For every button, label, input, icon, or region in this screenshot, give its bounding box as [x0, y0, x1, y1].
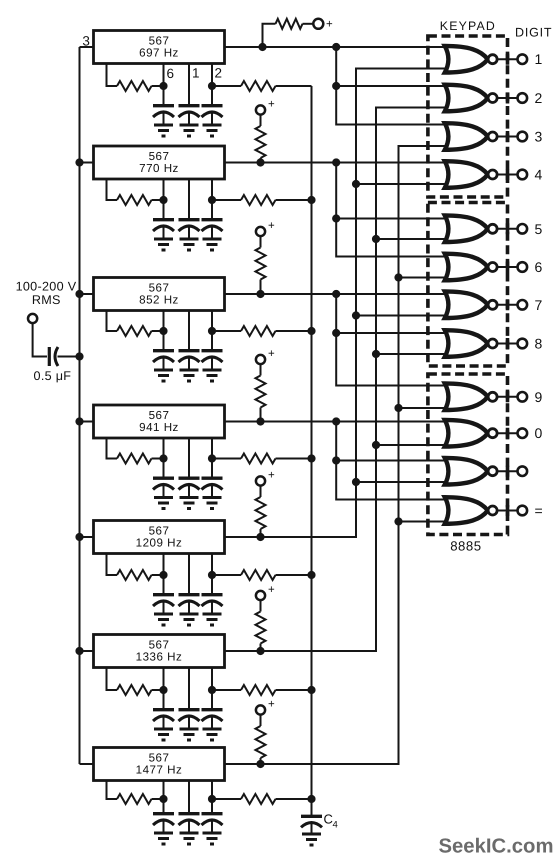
ground	[203, 614, 222, 625]
svg-text:KEYPAD: KEYPAD	[440, 19, 496, 33]
ground	[154, 498, 173, 509]
wire 1336 Hz column	[225, 108, 451, 652]
output bubble G5	[488, 224, 497, 233]
junction	[256, 417, 264, 425]
svg-text:9: 9	[535, 389, 543, 405]
wire border tick	[506, 338, 510, 349]
wire	[152, 458, 164, 460]
wire	[260, 158, 262, 163]
svg-text:1477 Hz: 1477 Hz	[136, 764, 183, 777]
wire	[80, 536, 94, 538]
capacitor C3	[163, 331, 165, 349]
svg-text:+: +	[268, 99, 275, 111]
wire	[80, 763, 94, 765]
junction	[256, 647, 264, 655]
wire	[212, 199, 241, 201]
wire pin 6	[163, 311, 165, 332]
wire	[260, 486, 262, 497]
wire border tick	[506, 466, 510, 477]
wire pin 2	[211, 311, 213, 332]
capacitor C6	[163, 690, 165, 708]
svg-text:2: 2	[215, 66, 223, 81]
wire	[260, 236, 262, 247]
wire	[212, 574, 241, 576]
wire pin 1	[188, 179, 190, 214]
resistor R3c	[256, 248, 266, 280]
junction filter bus tap	[307, 571, 315, 579]
svg-text:+: +	[268, 220, 275, 232]
wire	[263, 24, 276, 47]
capacitor C5	[211, 575, 213, 593]
wire	[80, 421, 94, 423]
NOR gate G9	[445, 383, 488, 410]
wire	[212, 798, 241, 800]
resistor R3b	[241, 326, 276, 336]
capacitor C7	[188, 799, 190, 812]
junction	[256, 290, 264, 298]
output bubble G4	[488, 170, 497, 179]
NOR gate G4	[445, 161, 488, 188]
wire	[399, 277, 451, 279]
wire gate output	[497, 228, 518, 230]
output terminal digit 2	[518, 93, 528, 103]
junction pin 2 node	[208, 82, 216, 90]
ground	[203, 125, 222, 136]
wire	[276, 199, 312, 201]
wire gate output	[497, 58, 518, 60]
svg-text:5: 5	[535, 221, 543, 237]
junction	[372, 441, 380, 449]
wire 941 Hz output row	[225, 421, 451, 423]
567 tone decoder U3 852 Hz	[94, 278, 225, 311]
wire gate output	[497, 343, 518, 345]
wire pin4 bracket U7	[107, 781, 118, 800]
wire	[376, 238, 450, 240]
capacitor C1	[211, 86, 213, 104]
capacitor C4	[188, 459, 190, 477]
wire row branch	[336, 294, 450, 386]
ground	[180, 370, 199, 381]
wire	[356, 315, 450, 317]
wire border tick	[506, 131, 510, 142]
wire	[33, 323, 47, 356]
wire pin 6	[163, 438, 165, 459]
capacitor C5	[163, 575, 165, 593]
svg-text:+: +	[268, 348, 275, 360]
junction pin 2 node	[208, 196, 216, 204]
wire pin4 bracket U3	[107, 311, 118, 332]
V+ terminal supply 7	[256, 705, 265, 714]
junction bus tap	[75, 533, 83, 541]
wire row branch	[336, 163, 450, 257]
svg-text:+: +	[268, 470, 275, 482]
V+ terminal supply 1	[313, 19, 323, 29]
capacitor 0.5uF	[48, 347, 51, 366]
resistor R5b	[241, 570, 276, 580]
svg-text:6: 6	[535, 259, 543, 275]
junction input node	[75, 352, 83, 360]
wire row branch	[336, 332, 450, 334]
input terminal	[28, 314, 37, 323]
junction	[372, 235, 380, 243]
wire	[260, 408, 262, 422]
wire	[303, 23, 314, 25]
resistor R2b	[241, 195, 276, 205]
wire	[152, 798, 164, 800]
ground	[180, 614, 199, 625]
resistor R7a	[117, 794, 152, 804]
wire pin4 bracket U5	[107, 554, 118, 576]
ground	[180, 833, 199, 844]
junction bus tap	[75, 290, 83, 298]
junction	[256, 533, 264, 541]
wire pin 6	[163, 64, 165, 87]
resistor R6b	[241, 685, 276, 695]
ground	[203, 729, 222, 740]
svg-text:+: +	[326, 19, 333, 31]
wire	[212, 85, 241, 87]
wire	[276, 85, 312, 87]
567 tone decoder U5 1209 Hz	[94, 521, 225, 554]
keypad gate group C dashed box	[428, 374, 508, 535]
ground	[154, 370, 173, 381]
svg-text:1336 Hz: 1336 Hz	[136, 651, 183, 664]
capacitor C3	[211, 331, 213, 349]
output bubble G10	[488, 429, 497, 438]
output bubble G6	[488, 263, 497, 272]
V+ terminal supply 3	[256, 227, 265, 236]
NOR gate G12	[445, 497, 488, 524]
svg-text:1: 1	[192, 66, 200, 81]
output terminal digit 8	[518, 339, 528, 349]
resistor R5a	[117, 570, 152, 580]
wire	[276, 574, 312, 576]
capacitor C2	[211, 200, 213, 218]
output terminal digit blank	[518, 466, 528, 476]
ground	[180, 239, 199, 250]
wire filter bus	[311, 86, 313, 816]
svg-text:697 Hz: 697 Hz	[139, 47, 179, 60]
wire	[260, 364, 262, 375]
junction	[256, 158, 264, 166]
wire pin 1	[188, 781, 190, 814]
wire	[260, 644, 262, 652]
wire pin 6	[163, 554, 165, 576]
svg-text:4: 4	[535, 167, 543, 183]
wire border tick	[506, 505, 510, 516]
ground	[180, 729, 199, 740]
svg-text:852 Hz: 852 Hz	[139, 294, 179, 307]
wire border tick	[506, 54, 510, 65]
svg-text:8885: 8885	[450, 539, 481, 554]
ground	[154, 614, 173, 625]
output terminal digit 3	[518, 132, 528, 142]
output bubble G1	[488, 55, 497, 64]
resistor R6c	[256, 612, 266, 644]
wire	[276, 458, 312, 460]
wire row branch	[336, 85, 450, 87]
wire	[152, 199, 164, 201]
resistor R1c	[276, 19, 303, 29]
wire	[376, 444, 450, 446]
junction filter bus tap	[307, 795, 315, 803]
wire pin 2	[211, 668, 213, 691]
wire gate output	[497, 304, 518, 306]
capacitor C6	[188, 690, 190, 708]
svg-text:SeekIC.com: SeekIC.com	[439, 836, 554, 858]
junction bus tap	[75, 158, 83, 166]
svg-text:770 Hz: 770 Hz	[139, 162, 179, 175]
junction pin 6 node	[159, 686, 167, 694]
keypad gate group B dashed box	[428, 203, 508, 367]
output bubble G8	[488, 339, 497, 348]
wire pin 2	[211, 438, 213, 459]
junction	[352, 180, 360, 188]
wire pin 2	[211, 781, 213, 800]
junction	[332, 417, 340, 425]
wire border tick	[506, 223, 510, 234]
wire 852 Hz output row	[225, 293, 451, 295]
wire	[260, 529, 262, 537]
junction	[394, 273, 402, 281]
capacitor C2	[188, 200, 190, 218]
wire row branch	[336, 460, 450, 462]
wire gate output	[497, 396, 518, 398]
wire pin 6	[163, 179, 165, 200]
ground	[180, 125, 199, 136]
resistor R2c	[256, 126, 266, 158]
wire	[260, 600, 262, 611]
svg-text:=: =	[535, 503, 543, 519]
capacitor C1	[163, 86, 165, 104]
NOR gate G2	[445, 85, 488, 112]
junction filter bus tap	[307, 454, 315, 462]
junction	[332, 290, 340, 298]
ground	[154, 833, 173, 844]
junction bus tap	[75, 647, 83, 655]
svg-text:0.5 μF: 0.5 μF	[34, 369, 72, 383]
output bubble G7	[488, 300, 497, 309]
junction pin 6 node	[159, 82, 167, 90]
junction filter bus tap	[307, 327, 315, 335]
wire	[80, 293, 94, 295]
wire row branch	[336, 47, 450, 125]
svg-text:2: 2	[535, 90, 543, 106]
wire	[276, 330, 312, 332]
wire gate output	[497, 97, 518, 99]
NOR gate G7	[445, 291, 488, 318]
resistor R3a	[117, 326, 152, 336]
junction	[332, 329, 340, 337]
output bubble G11	[488, 467, 497, 476]
wire	[276, 689, 312, 691]
resistor R6a	[117, 685, 152, 695]
wire gate output	[497, 432, 518, 434]
wire border tick	[506, 428, 510, 439]
output bubble G3	[488, 132, 497, 141]
wire pin 2	[211, 64, 213, 87]
junction pin 2 node	[208, 454, 216, 462]
capacitor C3	[188, 331, 190, 349]
NOR gate G10	[445, 420, 488, 447]
output bubble G9	[488, 392, 497, 401]
wire border tick	[506, 299, 510, 310]
wire 1477 Hz column	[225, 146, 451, 764]
svg-text:3: 3	[82, 34, 90, 49]
junction	[332, 82, 340, 90]
wire pin 1	[188, 311, 190, 346]
wire	[356, 183, 450, 185]
wire border tick	[506, 262, 510, 273]
wire gate output	[497, 470, 518, 472]
wire	[152, 85, 164, 87]
wire	[152, 330, 164, 332]
svg-text:1209 Hz: 1209 Hz	[136, 537, 183, 550]
svg-text:+: +	[268, 584, 275, 596]
capacitor C5	[188, 575, 190, 593]
wire pin4 bracket U6	[107, 668, 118, 691]
junction pin 2 node	[208, 571, 216, 579]
wire 1209 Hz column	[225, 69, 451, 538]
output terminal digit 1	[518, 54, 528, 64]
NOR gate G1	[445, 46, 488, 73]
junction pin 6 node	[159, 571, 167, 579]
ground	[203, 370, 222, 381]
junction	[256, 760, 264, 768]
output bubble G2	[488, 94, 497, 103]
svg-text:7: 7	[535, 297, 543, 313]
junction bus tap	[75, 417, 83, 425]
svg-text:3: 3	[535, 129, 543, 145]
svg-text:8: 8	[535, 336, 543, 352]
resistor R4c	[256, 376, 266, 408]
resistor R2a	[117, 195, 152, 205]
wire pin 1	[188, 668, 190, 705]
resistor R1a	[117, 81, 152, 91]
wire pin4 bracket U4	[107, 438, 118, 459]
ground	[203, 239, 222, 250]
wire pin 2	[211, 179, 213, 200]
wire	[260, 280, 262, 295]
output terminal digit 5	[518, 224, 528, 234]
output bubble G12	[488, 506, 497, 515]
junction pin 6 node	[159, 795, 167, 803]
wire row branch	[336, 422, 450, 500]
capacitor C4	[301, 815, 322, 818]
wire pin4 bracket U1	[107, 64, 118, 87]
wire	[260, 758, 262, 764]
567 tone decoder U6 1336 Hz	[94, 635, 225, 668]
wire pin 2	[211, 554, 213, 576]
wire gate output	[497, 510, 518, 512]
wire border tick	[506, 391, 510, 402]
resistor R1b	[241, 81, 276, 91]
junction filter bus tap	[307, 196, 315, 204]
svg-text:4: 4	[333, 820, 339, 831]
V+ terminal supply 4	[256, 355, 265, 364]
svg-text:0: 0	[535, 425, 543, 441]
resistor R4a	[117, 454, 152, 464]
567 tone decoder U7 1477 Hz	[94, 748, 225, 781]
wire gate output	[497, 136, 518, 138]
wire	[212, 689, 241, 691]
wire pin4 bracket U2	[107, 179, 118, 200]
junction pin 6 node	[159, 196, 167, 204]
resistor R4b	[241, 454, 276, 464]
wire	[80, 162, 94, 164]
V+ terminal supply 2	[256, 105, 265, 114]
NOR gate G8	[445, 330, 488, 357]
junction	[258, 43, 266, 51]
wire row branch	[336, 218, 450, 220]
junction	[332, 43, 340, 51]
567 tone decoder U1 697 Hz	[94, 31, 225, 64]
wire pin 1	[188, 554, 190, 590]
capacitor C2	[163, 200, 165, 218]
NOR gate G3	[445, 123, 488, 150]
junction	[332, 214, 340, 222]
wire	[152, 689, 164, 691]
junction pin 2 node	[208, 327, 216, 335]
ground	[302, 834, 321, 845]
wire	[399, 521, 451, 523]
junction pin 2 node	[208, 686, 216, 694]
NOR gate G5	[445, 215, 488, 242]
wire	[212, 330, 241, 332]
wire	[376, 353, 450, 355]
wire	[399, 407, 451, 409]
output terminal digit 6	[518, 262, 528, 272]
capacitor C1	[188, 86, 190, 104]
wire gate output	[497, 266, 518, 268]
wire	[260, 715, 262, 726]
junction	[372, 350, 380, 358]
wire input bus	[79, 47, 81, 764]
svg-text:6: 6	[167, 66, 175, 81]
junction	[394, 404, 402, 412]
resistor R7b	[241, 794, 276, 804]
wire pin 1	[188, 64, 190, 101]
567 tone decoder U2 770 Hz	[94, 146, 225, 179]
resistor R5c	[256, 497, 266, 529]
svg-text:DIGIT: DIGIT	[515, 26, 552, 40]
capacitor C4	[163, 459, 165, 477]
wire pin 6	[163, 781, 165, 800]
wire gate output	[497, 174, 518, 176]
ground	[154, 239, 173, 250]
svg-text:RMS: RMS	[32, 293, 61, 307]
wire	[356, 481, 450, 483]
keypad gate group A dashed box	[428, 36, 508, 197]
junction	[332, 456, 340, 464]
capacitor C7	[211, 799, 213, 812]
wire	[276, 798, 312, 800]
svg-text:1: 1	[535, 51, 543, 67]
junction pin 2 node	[208, 795, 216, 803]
svg-text:100-200 V: 100-200 V	[16, 280, 77, 294]
ground	[180, 498, 199, 509]
wire 697 Hz output row	[225, 46, 451, 48]
ground	[154, 125, 173, 136]
wire 770 Hz output row	[225, 162, 451, 164]
output terminal digit 4	[518, 170, 528, 180]
junction pin 6 node	[159, 454, 167, 462]
ground	[154, 729, 173, 740]
junction	[394, 517, 402, 525]
wire	[152, 574, 164, 576]
capacitor C7	[163, 799, 165, 812]
junction	[352, 311, 360, 319]
